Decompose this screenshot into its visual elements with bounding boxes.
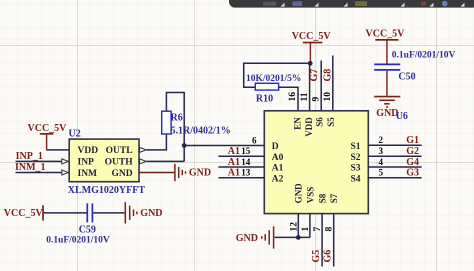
junction VDD (308, 61, 313, 66)
svg-text:GND: GND (140, 208, 162, 219)
op-amp U6 body (264, 111, 368, 214)
svg-text:U2: U2 (69, 129, 81, 140)
wire gnd bus (275, 236, 310, 238)
svg-text:2: 2 (379, 135, 384, 145)
ground (C50) (374, 97, 400, 107)
svg-text:11: 11 (300, 92, 310, 101)
svg-text:R6: R6 (171, 113, 183, 124)
wire S3 (368, 166, 421, 168)
pin arrow INP (62, 159, 69, 164)
svg-text:4: 4 (379, 157, 384, 167)
wire A0 (218, 155, 264, 157)
svg-text:VSS: VSS (305, 187, 315, 204)
svg-text:7: 7 (313, 227, 323, 232)
svg-text:1: 1 (301, 227, 311, 232)
svg-text:10: 10 (323, 92, 333, 102)
svg-text:INM_1: INM_1 (15, 162, 46, 173)
wire INM (16, 172, 63, 174)
power port VCC_5V (U6 supply) (292, 31, 332, 63)
wire C59 to GND (93, 212, 124, 214)
svg-text:OUTL: OUTL (106, 146, 133, 156)
svg-text:5.1R/0402/1%: 5.1R/0402/1% (171, 125, 231, 136)
svg-text:VCC_5V: VCC_5V (292, 31, 332, 42)
svg-text:INP: INP (78, 158, 95, 168)
pin arrow OUTL (140, 147, 147, 152)
resistor R10 (255, 83, 278, 90)
svg-text:C50: C50 (398, 71, 415, 82)
toolbar (229, 0, 474, 8)
svg-text:G2: G2 (406, 146, 419, 157)
svg-text:A1: A1 (272, 164, 284, 174)
ground (C59) (125, 202, 137, 223)
svg-text:EN: EN (292, 117, 302, 130)
ground (U6 bottom) (262, 226, 274, 248)
svg-text:C59: C59 (79, 224, 96, 235)
svg-text:S1: S1 (350, 142, 360, 152)
svg-text:R10: R10 (256, 94, 273, 105)
wire INP (16, 160, 63, 162)
svg-text:VCC_5V: VCC_5V (4, 208, 44, 219)
wire U2 GND pin (139, 172, 174, 174)
svg-text:0.1uF/0201/10V: 0.1uF/0201/10V (392, 50, 456, 60)
svg-text:14: 14 (241, 157, 251, 167)
wire S4 (368, 177, 421, 179)
wire A1 (218, 166, 264, 168)
capacitor C50 (374, 64, 400, 70)
wire C50 to GND (386, 71, 387, 96)
svg-text:6: 6 (252, 136, 257, 146)
svg-text:G4: G4 (406, 157, 419, 168)
power port VCC_5V (U2 supply) (28, 123, 68, 150)
svg-text:5: 5 (379, 168, 384, 178)
svg-text:GND: GND (236, 233, 258, 244)
svg-text:S2: S2 (350, 153, 360, 163)
svg-text:G7: G7 (309, 69, 320, 82)
svg-text:VDD: VDD (78, 146, 99, 156)
power port VCC_5V (C59) (4, 205, 44, 220)
wire R6 top loop (166, 93, 184, 162)
wire to R10 (244, 63, 311, 87)
wire VDD to U2 (46, 149, 69, 151)
wire pin8 S7 (333, 214, 335, 267)
svg-text:G5: G5 (311, 250, 322, 263)
wire pin9 stub (320, 61, 322, 111)
svg-text:VCC_5V: VCC_5V (28, 123, 68, 134)
capacitor C59 (87, 203, 92, 222)
wire VDD pin11 (309, 63, 311, 111)
svg-text:A1: A1 (228, 157, 240, 168)
svg-text:VDD: VDD (304, 117, 314, 137)
svg-text:G3: G3 (406, 168, 419, 179)
svg-text:GND: GND (189, 168, 211, 179)
svg-text:S6: S6 (314, 117, 324, 127)
junction node D (182, 143, 187, 148)
wire S2 (368, 155, 421, 157)
svg-text:U6: U6 (396, 111, 408, 122)
svg-text:13: 13 (241, 168, 251, 178)
svg-text:3: 3 (379, 146, 384, 156)
svg-text:A1: A1 (228, 146, 240, 157)
wire D to U6 (184, 145, 264, 147)
svg-text:S4: S4 (350, 174, 360, 184)
svg-text:G8: G8 (322, 69, 333, 82)
pin arrow INM (62, 170, 69, 175)
svg-text:VCC_5V: VCC_5V (366, 28, 406, 39)
svg-text:A1: A1 (228, 168, 240, 179)
wire OUTH (146, 160, 184, 162)
wire A2 (218, 177, 264, 179)
wire pin7 S8 (321, 214, 323, 267)
svg-text:S3: S3 (350, 164, 360, 174)
svg-text:A0: A0 (272, 153, 284, 163)
svg-text:15: 15 (241, 146, 251, 156)
svg-text:0.1uF/0201/10V: 0.1uF/0201/10V (46, 235, 110, 245)
svg-text:INP_1: INP_1 (16, 151, 43, 162)
wire pin1 VSS (309, 214, 311, 238)
wire S1 (368, 144, 421, 146)
svg-text:OUTH: OUTH (105, 158, 134, 168)
wire OUTL to R6 (146, 134, 166, 150)
svg-text:G1: G1 (406, 135, 419, 146)
svg-text:GND: GND (294, 183, 304, 204)
pin arrow OUTH (140, 159, 147, 164)
svg-text:INM: INM (78, 169, 98, 179)
svg-text:S8: S8 (318, 193, 328, 203)
svg-text:GND: GND (111, 169, 132, 179)
op-amp U2 body (69, 139, 139, 182)
power port VCC_5V (C50) (366, 28, 406, 64)
svg-text:16: 16 (288, 92, 298, 102)
svg-text:8: 8 (324, 227, 334, 232)
wire pin12 GND (297, 214, 299, 238)
wire VCC to C59 (44, 212, 87, 214)
resistor R6 (162, 111, 171, 134)
wire pin10 stub (332, 56, 334, 111)
svg-text:S5: S5 (326, 117, 336, 127)
ground (U2) (175, 164, 186, 181)
svg-text:A2: A2 (272, 174, 284, 184)
wire R10 to pin16 (279, 87, 298, 111)
svg-text:G6: G6 (322, 250, 333, 263)
svg-text:12: 12 (290, 222, 300, 232)
svg-text:XLMG1020YFFT: XLMG1020YFFT (68, 185, 146, 196)
junction gnd (296, 235, 301, 240)
svg-text:9: 9 (311, 97, 321, 102)
svg-text:S7: S7 (329, 193, 339, 203)
svg-text:D: D (272, 142, 279, 152)
